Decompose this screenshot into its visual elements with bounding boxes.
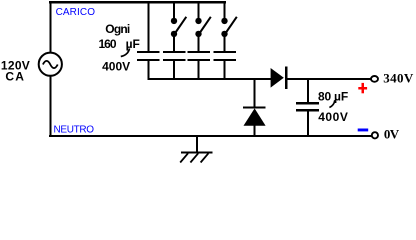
svg-text:CARICO: CARICO bbox=[56, 7, 96, 18]
ground hatch 2 bbox=[190, 153, 198, 162]
svg-text:400V: 400V bbox=[318, 110, 348, 124]
wire branch 1 drop bbox=[148, 3, 150, 51]
diode D2 triangle (anode up from NEUTRO) bbox=[244, 108, 266, 125]
svg-text:160: 160 bbox=[99, 37, 117, 51]
wire C5 to NEUTRO bus bbox=[307, 111, 309, 135]
switch S2 blade bbox=[200, 17, 211, 33]
wire DC bus to capacitor C5 bbox=[307, 79, 309, 102]
ground hatch 3 bbox=[201, 153, 209, 162]
capacitor C3 bottom plate bbox=[188, 59, 211, 61]
terminal +340V bbox=[371, 76, 378, 82]
wire C2 to DC bus bbox=[173, 61, 175, 79]
diode D2 cathode bar bbox=[243, 106, 266, 108]
wire switch S3 to C4 bbox=[224, 37, 226, 52]
svg-text:µF: µF bbox=[126, 37, 140, 51]
capacitor C1 top plate bbox=[137, 51, 160, 53]
wire branch 4 stub bbox=[224, 3, 226, 18]
diode D1 triangle (series, pointing right) bbox=[271, 68, 284, 88]
capacitor C5 bottom plate bbox=[296, 109, 319, 111]
wire switch S1 to C2 bbox=[173, 37, 175, 52]
switch S3 blade bbox=[226, 17, 237, 33]
svg-text:NEUTRO: NEUTRO bbox=[54, 125, 95, 136]
ground bar bbox=[181, 151, 212, 153]
svg-text:80: 80 bbox=[318, 89, 331, 103]
capacitor C5 top plate bbox=[296, 102, 319, 104]
switch S2 upper contact bbox=[195, 18, 201, 24]
capacitor C3 top plate bbox=[188, 51, 211, 53]
switch S3 lower contact bbox=[221, 31, 227, 37]
wire branch 3 stub bbox=[198, 3, 200, 18]
svg-text:0V: 0V bbox=[384, 126, 400, 141]
capacitor C2 bottom plate bbox=[163, 59, 186, 61]
capacitor C2 top plate bbox=[163, 51, 186, 53]
switch S1 blade bbox=[176, 17, 187, 33]
svg-text:CA: CA bbox=[5, 70, 25, 84]
wire branch 2 stub bbox=[173, 3, 175, 18]
wire bottom bus NEUTRO bbox=[49, 135, 372, 137]
switch S1 upper contact bbox=[171, 18, 177, 24]
wire top bus CARICO bbox=[49, 1, 226, 3]
ground hatch 1 bbox=[180, 153, 188, 162]
capacitor C4 top plate bbox=[214, 51, 237, 53]
µ tail stroke (C5) bbox=[329, 100, 334, 107]
switch S1 lower contact bbox=[171, 31, 177, 37]
wire DC bus from capacitor bank to diode D1 bbox=[148, 78, 272, 80]
ground stem bbox=[196, 136, 198, 152]
switch S2 lower contact bbox=[195, 31, 201, 37]
wire DC bus from diode D1 to +terminal bbox=[286, 78, 372, 80]
switch S3 upper contact bbox=[221, 18, 227, 24]
µ tail stroke (bank) bbox=[121, 49, 130, 57]
capacitor C1 bottom plate bbox=[137, 59, 160, 61]
wire C1 to DC bus bbox=[148, 61, 150, 79]
wire C4 to DC bus bbox=[224, 61, 226, 79]
diode D1 cathode bar bbox=[285, 67, 287, 90]
AC source sine symbol bbox=[43, 61, 58, 68]
wire D2 anode to NEUTRO bus bbox=[254, 126, 256, 136]
wire left vertical upper bbox=[49, 1, 51, 52]
svg-text:Ogni: Ogni bbox=[105, 22, 130, 36]
wire switch S2 to C3 bbox=[198, 37, 200, 52]
wire C3 to DC bus bbox=[198, 61, 200, 79]
svg-text:µF: µF bbox=[334, 89, 348, 103]
capacitor C4 bottom plate bbox=[214, 59, 237, 61]
svg-text:340V: 340V bbox=[383, 70, 414, 85]
wire DC bus to diode D2 cathode bbox=[254, 79, 256, 107]
polarity minus (blue) bbox=[358, 129, 369, 132]
wire left vertical lower bbox=[49, 76, 51, 135]
svg-text:400V: 400V bbox=[102, 59, 130, 73]
terminal 0V bbox=[372, 132, 378, 138]
AC source V1 circle bbox=[39, 53, 62, 76]
polarity plus (red) bbox=[358, 83, 367, 93]
